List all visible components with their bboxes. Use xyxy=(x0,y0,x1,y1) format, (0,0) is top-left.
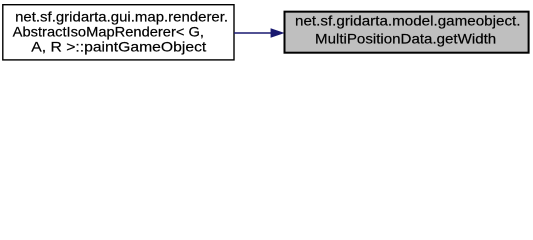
edge wire caller->callee xyxy=(234,32,272,34)
node: current MultiPositionData.getWidth (highlighted) xyxy=(285,12,529,53)
svg-text:net.sf.gridarta.model.gameobje: net.sf.gridarta.model.gameobject. xyxy=(295,13,521,28)
svg-text:A, R >::paintGameObject: A, R >::paintGameObject xyxy=(31,40,206,55)
svg-text:net.sf.gridarta.gui.map.render: net.sf.gridarta.gui.map.renderer. xyxy=(15,9,228,24)
node: caller AbstractIsoMapRenderer::paintGameObject xyxy=(3,5,234,60)
svg-text:MultiPositionData.getWidth: MultiPositionData.getWidth xyxy=(315,32,496,47)
svg-text:AbstractIsoMapRenderer< G,: AbstractIsoMapRenderer< G, xyxy=(13,24,204,39)
edge arrowhead xyxy=(271,29,284,38)
doxygen call graph xyxy=(0,0,533,67)
